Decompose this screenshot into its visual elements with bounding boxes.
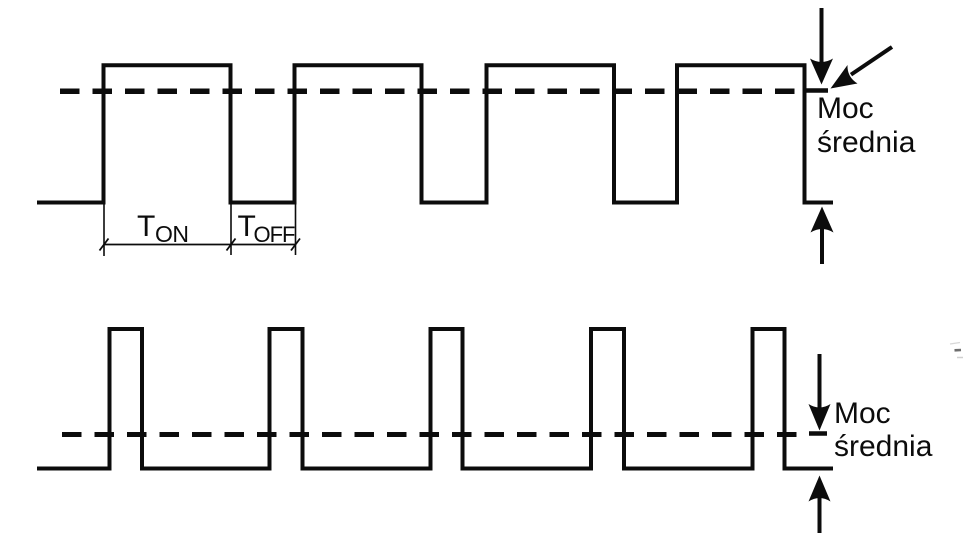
svg-text:Moc: Moc <box>817 92 874 125</box>
dimension line under T_ON and T_OFF <box>104 244 296 246</box>
svg-text:średnia: średnia <box>834 430 933 463</box>
bottom average-level tick (right) <box>809 431 827 436</box>
top up arrow <box>811 207 834 265</box>
faint scan mark right edge <box>955 349 962 352</box>
dimension tick slash 1 <box>100 239 109 251</box>
svg-text:OFF: OFF <box>254 222 296 247</box>
svg-text:ON: ON <box>155 221 189 247</box>
bottom PWM waveform (low duty cycle) <box>37 329 833 469</box>
svg-text:Moc: Moc <box>834 397 891 430</box>
top down arrow <box>810 8 833 85</box>
top dashed average-power line <box>60 89 805 95</box>
svg-text:średnia: średnia <box>817 126 916 159</box>
bottom down arrow <box>809 354 831 431</box>
diagonal arrow pointing at average level <box>831 47 893 89</box>
dimension tick slash 3 <box>291 239 300 251</box>
bottom dashed average-power line <box>62 432 800 437</box>
extension line at T_ON end / T_OFF start <box>230 204 232 255</box>
extension line at T_ON start <box>103 204 105 256</box>
extension line at T_OFF end <box>295 204 297 255</box>
dimension tick slash 2 <box>227 239 236 251</box>
svg-text:T: T <box>137 210 155 243</box>
bottom up arrow <box>809 476 831 534</box>
top average-level tick (right) <box>805 88 828 93</box>
top PWM waveform (high duty cycle) <box>37 65 833 202</box>
